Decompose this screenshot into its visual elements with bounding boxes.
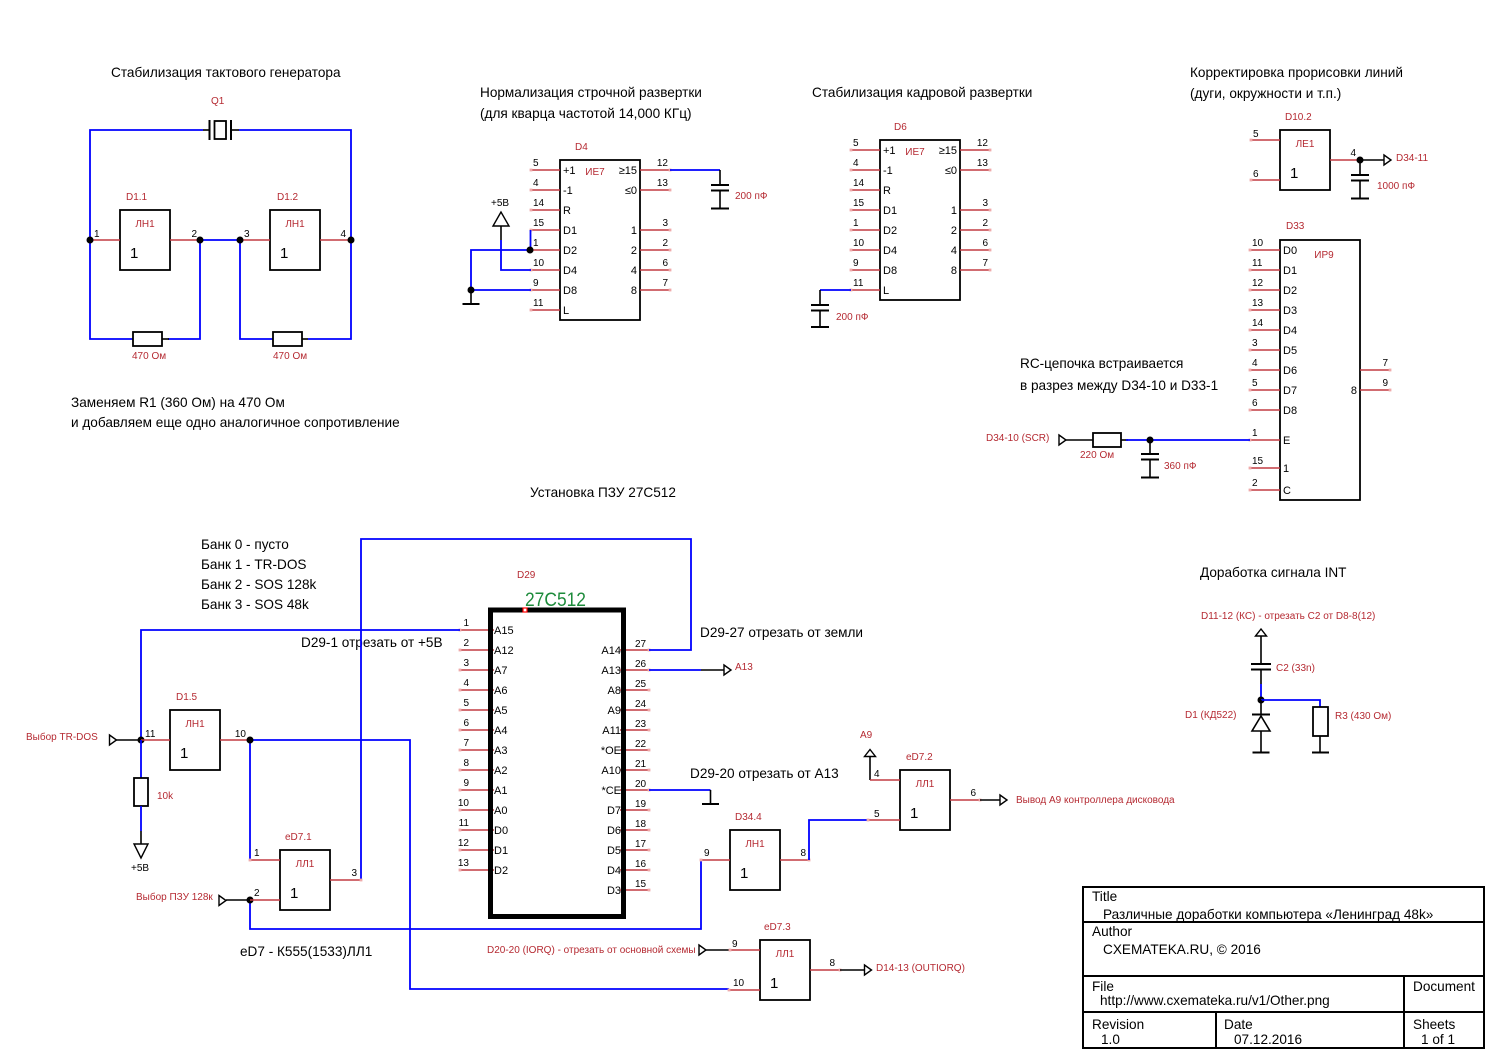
svg-text:25: 25 — [635, 679, 647, 690]
svg-text:Банк 3 - SOS 48k: Банк 3 - SOS 48k — [201, 597, 309, 612]
node 1 — [87, 237, 94, 244]
svg-text:A9: A9 — [608, 705, 621, 717]
svg-text:1.0: 1.0 — [1101, 1032, 1120, 1047]
svg-text:1: 1 — [94, 229, 100, 240]
arrow INT up — [1256, 629, 1267, 636]
svg-text:eD7.3: eD7.3 — [764, 922, 791, 933]
svg-text:16: 16 — [635, 859, 647, 870]
svg-text:Банк 0 - пусто: Банк 0 - пусто — [201, 537, 289, 552]
svg-text:3: 3 — [244, 229, 250, 240]
svg-text:1: 1 — [290, 885, 298, 902]
svg-text:2: 2 — [191, 229, 197, 240]
wire D1-D2 tie — [530, 230, 532, 250]
wire to D34-11 arrow — [1360, 159, 1384, 161]
wire node2-node3 — [200, 239, 240, 241]
svg-text:2: 2 — [662, 238, 668, 249]
svg-text:D2: D2 — [563, 245, 577, 257]
svg-text:Title: Title — [1092, 889, 1117, 904]
svg-text:CXEMATEKA.RU, © 2016: CXEMATEKA.RU, © 2016 — [1103, 942, 1261, 957]
svg-text:A4: A4 — [494, 725, 507, 737]
svg-text:8: 8 — [463, 758, 469, 769]
svg-text:A6: A6 — [494, 685, 507, 697]
IC D4 ИЕ7 counter — [530, 142, 672, 320]
svg-text:Нормализация строчной развертк: Нормализация строчной развертки — [480, 85, 702, 100]
svg-text:A9: A9 — [860, 730, 873, 741]
svg-text:RC-цепочка встраивается: RC-цепочка встраивается — [1020, 356, 1183, 371]
svg-text:D1: D1 — [1283, 265, 1297, 277]
svg-text:Установка ПЗУ 27С512: Установка ПЗУ 27С512 — [530, 485, 676, 500]
arrow A9 up — [865, 750, 876, 757]
svg-text:D1.5: D1.5 — [176, 692, 198, 703]
svg-text:15: 15 — [533, 218, 545, 229]
svg-text:4: 4 — [463, 678, 469, 689]
svg-text:1: 1 — [280, 245, 288, 262]
svg-text:14: 14 — [853, 178, 865, 189]
svg-text:eD7.2: eD7.2 — [906, 752, 933, 763]
svg-text:5: 5 — [1253, 129, 1259, 140]
inverter D34.4 ЛН1 — [700, 812, 811, 890]
svg-text:7: 7 — [662, 278, 668, 289]
wire feedback right bottom — [240, 240, 273, 339]
svg-text:D6: D6 — [1283, 365, 1297, 377]
IC D33 ИР9 register — [1249, 221, 1392, 500]
svg-text:D3: D3 — [1283, 305, 1297, 317]
svg-text:Document: Document — [1413, 979, 1475, 994]
svg-text:D4: D4 — [1283, 325, 1297, 337]
net label Вывод А9 контроллера дисковода — [1000, 795, 1007, 805]
capacitor 360 пФ — [1141, 440, 1197, 478]
svg-text:8: 8 — [829, 958, 835, 969]
svg-text:10: 10 — [853, 238, 865, 249]
svg-text:≤0: ≤0 — [945, 165, 957, 177]
capacitor 200 пФ (D4) — [711, 170, 768, 209]
svg-text:1: 1 — [180, 745, 188, 762]
svg-text:A1: A1 — [494, 785, 507, 797]
svg-text:9: 9 — [853, 258, 859, 269]
svg-text:200 пФ: 200 пФ — [836, 312, 869, 323]
svg-text:20: 20 — [635, 779, 647, 790]
wire D6 pin11 to capacitor — [820, 289, 851, 291]
svg-text:http://www.cxemateka.ru/v1/Oth: http://www.cxemateka.ru/v1/Other.png — [1100, 993, 1330, 1008]
node RC junction — [1147, 437, 1154, 444]
svg-text:18: 18 — [635, 819, 647, 830]
wire crystal left loop — [90, 130, 203, 240]
wire +5В to D4 pin 10 — [501, 240, 531, 270]
NOR gate D10.2 ЛЕ1 — [1250, 112, 1360, 190]
svg-text:3: 3 — [463, 658, 469, 669]
wire arrow to eD7.1 pin2 — [226, 899, 250, 901]
svg-text:D1: D1 — [563, 225, 577, 237]
svg-text:6: 6 — [1252, 398, 1258, 409]
svg-text:ИЕ7: ИЕ7 — [585, 167, 605, 178]
svg-text:D1 (КД522): D1 (КД522) — [1185, 710, 1237, 721]
svg-text:D1: D1 — [883, 205, 897, 217]
OR gate eD7.2 ЛЛ1 — [867, 752, 982, 830]
svg-text:ЛЕ1: ЛЕ1 — [1296, 139, 1315, 150]
svg-text:-1: -1 — [883, 165, 893, 177]
svg-text:D8: D8 — [1283, 405, 1297, 417]
svg-text:D6: D6 — [607, 825, 621, 837]
capacitor 1000 пФ — [1351, 160, 1415, 199]
svg-text:D0: D0 — [1283, 245, 1297, 257]
svg-text:24: 24 — [635, 699, 647, 710]
svg-text:5: 5 — [463, 698, 469, 709]
svg-text:11: 11 — [533, 298, 544, 309]
wire arrow to node 11 — [117, 739, 142, 741]
inverter D1.5 — [141, 692, 250, 770]
svg-text:8: 8 — [1351, 385, 1357, 397]
svg-text:4: 4 — [1350, 148, 1356, 159]
svg-text:Стабилизация тактового генерат: Стабилизация тактового генератора — [111, 65, 341, 80]
svg-text:10: 10 — [733, 978, 745, 989]
svg-text:D14-13 (OUTIORQ): D14-13 (OUTIORQ) — [876, 963, 965, 974]
svg-text:5: 5 — [533, 158, 539, 169]
svg-text:Sheets: Sheets — [1413, 1017, 1456, 1032]
svg-text:1: 1 — [631, 225, 637, 237]
svg-text:R: R — [563, 205, 571, 217]
svg-text:+5В: +5В — [131, 863, 149, 874]
resistor 470 Ом (right) — [273, 332, 307, 362]
svg-text:A13: A13 — [735, 662, 753, 673]
svg-text:8: 8 — [951, 265, 957, 277]
svg-text:D33: D33 — [1286, 221, 1305, 232]
node eD7.1 pin2 — [247, 897, 254, 904]
svg-text:6: 6 — [662, 258, 668, 269]
wire eD7.3 out to arrow — [840, 969, 865, 971]
svg-text:470 Ом: 470 Ом — [132, 351, 166, 362]
svg-text:1: 1 — [130, 245, 138, 262]
svg-text:A3: A3 — [494, 745, 507, 757]
svg-text:1: 1 — [1252, 428, 1258, 439]
svg-text:11: 11 — [145, 729, 156, 740]
svg-text:Выбор ПЗУ 128к: Выбор ПЗУ 128к — [136, 891, 213, 903]
svg-text:≤0: ≤0 — [625, 185, 637, 197]
svg-text:A12: A12 — [494, 645, 514, 657]
svg-text:1: 1 — [1283, 463, 1289, 475]
svg-text:≥15: ≥15 — [939, 145, 957, 157]
svg-text:2: 2 — [254, 888, 260, 899]
svg-text:(дуги, окружности и т.п.): (дуги, окружности и т.п.) — [1190, 86, 1341, 101]
svg-text:220 Ом: 220 Ом — [1080, 450, 1114, 461]
svg-text:+1: +1 — [563, 165, 576, 177]
svg-text:4: 4 — [874, 769, 880, 780]
svg-text:A10: A10 — [601, 765, 621, 777]
svg-text:360 пФ: 360 пФ — [1164, 461, 1197, 472]
ground symbol (*CE) — [710, 790, 712, 804]
svg-text:D3: D3 — [607, 885, 621, 897]
svg-text:11: 11 — [459, 818, 470, 829]
svg-text:6: 6 — [970, 788, 976, 799]
svg-text:3: 3 — [662, 218, 668, 229]
svg-text:D34-10 (SCR): D34-10 (SCR) — [986, 433, 1049, 444]
svg-text:1: 1 — [951, 205, 957, 217]
svg-text:A14: A14 — [601, 645, 621, 657]
svg-text:3: 3 — [351, 868, 357, 879]
svg-text:D5: D5 — [1283, 345, 1297, 357]
node 4 — [348, 237, 355, 244]
svg-text:L: L — [563, 305, 569, 317]
svg-text:9: 9 — [463, 778, 469, 789]
power +5В symbol (pull-up) — [131, 806, 149, 874]
svg-text:14: 14 — [1252, 318, 1264, 329]
crystal Q1 — [203, 96, 239, 140]
svg-text:23: 23 — [635, 719, 647, 730]
svg-text:5: 5 — [853, 138, 859, 149]
svg-text:Доработка сигнала INT: Доработка сигнала INT — [1200, 565, 1346, 580]
svg-text:D7: D7 — [607, 805, 621, 817]
svg-text:A2: A2 — [494, 765, 507, 777]
EPROM D29 27C512 — [458, 570, 651, 917]
svg-text:R: R — [883, 185, 891, 197]
svg-text:Различные доработки компьютера: Различные доработки компьютера «Ленингра… — [1103, 907, 1434, 922]
svg-text:14: 14 — [533, 198, 545, 209]
svg-text:07.12.2016: 07.12.2016 — [1234, 1032, 1302, 1047]
capacitor C2 (33n) — [1251, 663, 1315, 684]
node 2 — [197, 237, 204, 244]
svg-text:Date: Date — [1224, 1017, 1253, 1032]
node D4 ground junction — [468, 287, 475, 294]
svg-text:A5: A5 — [494, 705, 507, 717]
svg-text:4: 4 — [533, 178, 539, 189]
svg-text:7: 7 — [982, 258, 988, 269]
svg-text:Вывод А9 контроллера дисковода: Вывод А9 контроллера дисковода — [1016, 795, 1175, 806]
svg-text:Author: Author — [1092, 924, 1133, 939]
svg-text:3: 3 — [1252, 338, 1258, 349]
diode D1 (КД522) — [1185, 700, 1270, 753]
OR gate eD7.1 ЛЛ1 — [249, 832, 363, 910]
svg-text:*CE: *CE — [601, 785, 621, 797]
svg-text:ИР9: ИР9 — [1314, 250, 1334, 261]
svg-text:9: 9 — [732, 939, 738, 950]
wire A13 output — [649, 669, 701, 671]
svg-text:12: 12 — [1252, 278, 1264, 289]
svg-text:Стабилизация кадровой развертк: Стабилизация кадровой развертки — [812, 85, 1032, 100]
svg-text:1: 1 — [533, 238, 539, 249]
wire arrow to eD7.3 pin9 — [706, 949, 730, 951]
svg-text:D4: D4 — [607, 865, 621, 877]
ground symbol (D4) — [470, 290, 472, 304]
svg-text:C: C — [1283, 485, 1291, 497]
svg-text:D29: D29 — [517, 570, 536, 581]
svg-text:10: 10 — [235, 729, 247, 740]
svg-text:D34.4: D34.4 — [735, 812, 762, 823]
svg-text:26: 26 — [635, 659, 647, 670]
svg-text:470 Ом: 470 Ом — [273, 351, 307, 362]
svg-text:eD7.1: eD7.1 — [285, 832, 312, 843]
title block frame — [1083, 887, 1484, 1048]
node D4 D2 — [527, 247, 534, 254]
svg-text:17: 17 — [635, 839, 647, 850]
svg-text:D34-11: D34-11 — [1396, 153, 1428, 164]
svg-text:200 пФ: 200 пФ — [735, 191, 768, 202]
svg-text:D1.1: D1.1 — [126, 192, 148, 203]
node 3 — [237, 237, 244, 244]
net label D14-13 (OUTIORQ) — [865, 965, 872, 975]
svg-text:9: 9 — [1382, 378, 1388, 389]
svg-text:5: 5 — [874, 809, 880, 820]
svg-text:6: 6 — [982, 238, 988, 249]
svg-text:1: 1 — [254, 848, 260, 859]
svg-text:+1: +1 — [883, 145, 896, 157]
svg-text:D2: D2 — [494, 865, 508, 877]
svg-text:1: 1 — [910, 805, 918, 822]
svg-text:D5: D5 — [607, 845, 621, 857]
svg-text:15: 15 — [853, 198, 865, 209]
svg-text:1: 1 — [770, 975, 778, 992]
svg-text:8: 8 — [800, 848, 806, 859]
resistor 220 Ом — [1080, 433, 1128, 461]
svg-text:12: 12 — [977, 138, 989, 149]
svg-text:10: 10 — [458, 798, 470, 809]
svg-text:L: L — [883, 285, 889, 297]
svg-text:E: E — [1283, 435, 1290, 447]
resistor R3 (430 Ом) — [1312, 707, 1391, 753]
svg-text:9: 9 — [533, 278, 539, 289]
wire eD7.2 out to arrow — [980, 799, 1000, 801]
svg-text:D11-12 (КС) - отрезать С2 от D: D11-12 (КС) - отрезать С2 от D8-8(12) — [1201, 611, 1375, 622]
svg-text:1: 1 — [463, 618, 469, 629]
svg-text:A0: A0 — [494, 805, 507, 817]
svg-text:2: 2 — [1252, 478, 1258, 489]
svg-text:2: 2 — [951, 225, 957, 237]
wire *CE to ground — [649, 789, 711, 791]
svg-text:D8: D8 — [563, 285, 577, 297]
wire eD7.1 out to A14 — [361, 539, 691, 880]
wire D1.5 out net — [250, 740, 729, 989]
wire crystal right loop — [239, 130, 351, 240]
svg-text:D1: D1 — [494, 845, 508, 857]
resistor 470 Ом (left) — [132, 332, 166, 362]
wire feedback left bottom — [90, 240, 133, 339]
svg-text:6: 6 — [1253, 169, 1259, 180]
svg-text:21: 21 — [635, 759, 647, 770]
svg-text:и добавляем еще одно аналогичн: и добавляем еще одно аналогичное сопроти… — [71, 415, 400, 430]
net label A13 — [724, 665, 731, 675]
net label D34-11 — [1384, 155, 1391, 165]
svg-text:ИЕ7: ИЕ7 — [905, 147, 925, 158]
wire D34.4 out to eD7.2 pin5 — [809, 820, 868, 860]
svg-text:22: 22 — [635, 739, 647, 750]
svg-text:ЛЛ1: ЛЛ1 — [916, 779, 935, 790]
svg-text:12: 12 — [657, 158, 669, 169]
svg-text:5: 5 — [1252, 378, 1258, 389]
svg-text:Выбор TR-DOS: Выбор TR-DOS — [26, 731, 98, 743]
svg-text:ЛЛ1: ЛЛ1 — [296, 859, 315, 870]
node INT junction — [1258, 697, 1265, 704]
svg-text:12: 12 — [458, 838, 470, 849]
svg-text:10: 10 — [533, 258, 545, 269]
svg-text:File: File — [1092, 979, 1114, 994]
svg-text:1: 1 — [740, 865, 748, 882]
svg-text:Q1: Q1 — [211, 96, 225, 107]
svg-text:8: 8 — [631, 285, 637, 297]
OR gate eD7.3 ЛЛ1 — [728, 922, 842, 1000]
svg-text:ЛН1: ЛН1 — [285, 219, 305, 230]
svg-text:C2 (33n): C2 (33n) — [1276, 663, 1315, 674]
svg-text:Банк 2 - SOS 128k: Банк 2 - SOS 128k — [201, 577, 317, 592]
svg-text:11: 11 — [1252, 258, 1263, 269]
svg-text:R3 (430 Ом): R3 (430 Ом) — [1335, 711, 1391, 722]
svg-text:4: 4 — [1252, 358, 1258, 369]
svg-text:13: 13 — [977, 158, 989, 169]
svg-text:D4: D4 — [883, 245, 897, 257]
svg-text:Банк 1 - TR-DOS: Банк 1 - TR-DOS — [201, 557, 306, 572]
svg-text:D0: D0 — [494, 825, 508, 837]
svg-text:A11: A11 — [602, 725, 621, 737]
svg-text:10k: 10k — [157, 791, 174, 802]
svg-text:10: 10 — [1252, 238, 1264, 249]
svg-text:D4: D4 — [575, 142, 588, 153]
inverter D1.1 — [90, 192, 200, 270]
node D1.5 pin10 — [247, 737, 254, 744]
node D1.5 pin11 — [138, 737, 145, 744]
svg-text:A8: A8 — [608, 685, 621, 697]
svg-text:9: 9 — [704, 848, 710, 859]
svg-text:13: 13 — [458, 858, 470, 869]
svg-text:A15: A15 — [494, 625, 514, 637]
svg-text:D10.2: D10.2 — [1285, 112, 1312, 123]
svg-text:*OE: *OE — [601, 745, 621, 757]
IC D6 ИЕ7 counter — [850, 122, 992, 300]
svg-text:15: 15 — [635, 879, 647, 890]
svg-text:D6: D6 — [894, 122, 907, 133]
wire D2 to ground branch — [471, 250, 531, 290]
svg-text:D2: D2 — [1283, 285, 1297, 297]
svg-text:ЛН1: ЛН1 — [135, 219, 155, 230]
svg-text:eD7 - К555(1533)ЛЛ1: eD7 - К555(1533)ЛЛ1 — [240, 944, 372, 959]
svg-text:D29-27 отрезать от земли: D29-27 отрезать от земли — [700, 625, 863, 640]
svg-text:в разрез между D34-10 и D33-1: в разрез между D34-10 и D33-1 — [1020, 378, 1218, 393]
svg-text:27: 27 — [635, 639, 647, 650]
svg-text:Корректировка прорисовки линий: Корректировка прорисовки линий — [1190, 65, 1403, 80]
svg-text:D29-1 отрезать от +5В: D29-1 отрезать от +5В — [301, 635, 443, 650]
wire eD7.1 pin2 to D34.4 pin9 — [250, 860, 701, 929]
svg-text:4: 4 — [340, 229, 346, 240]
svg-text:(для кварца частотой 14,000 КГ: (для кварца частотой 14,000 КГц) — [480, 106, 692, 121]
svg-text:+5В: +5В — [491, 198, 509, 209]
svg-text:ЛН1: ЛН1 — [185, 719, 205, 730]
resistor 10k — [134, 740, 174, 806]
svg-text:7: 7 — [1382, 358, 1388, 369]
svg-text:ЛЛ1: ЛЛ1 — [776, 949, 795, 960]
svg-text:D29-20 отрезать от A13: D29-20 отрезать от A13 — [690, 766, 839, 781]
svg-text:6: 6 — [463, 718, 469, 729]
svg-text:1 of 1: 1 of 1 — [1421, 1032, 1455, 1047]
wire R220 to D33 pin E — [1126, 439, 1250, 441]
wire C2 to junction — [1260, 684, 1262, 700]
svg-text:D20-20 (IORQ) - отрезать от ос: D20-20 (IORQ) - отрезать от основной схе… — [487, 945, 696, 956]
svg-text:≥15: ≥15 — [619, 165, 637, 177]
svg-text:A13: A13 — [601, 665, 621, 677]
capacitor 200 пФ (D6) — [811, 290, 869, 327]
svg-text:-1: -1 — [563, 185, 573, 197]
node D10.2 output — [1357, 157, 1364, 164]
svg-text:4: 4 — [951, 245, 957, 257]
wire junction to R3 — [1261, 700, 1320, 707]
svg-text:2: 2 — [631, 245, 637, 257]
svg-text:2: 2 — [463, 638, 469, 649]
inverter D1.2 — [240, 192, 351, 270]
svg-text:ЛН1: ЛН1 — [745, 839, 765, 850]
svg-text:3: 3 — [982, 198, 988, 209]
svg-text:A7: A7 — [494, 665, 507, 677]
svg-text:1: 1 — [853, 218, 859, 229]
svg-text:13: 13 — [1252, 298, 1264, 309]
svg-text:D7: D7 — [1283, 385, 1297, 397]
svg-text:15: 15 — [1252, 456, 1264, 467]
svg-text:D4: D4 — [563, 265, 577, 277]
svg-text:Заменяем R1 (360 Ом) на 470 Ом: Заменяем R1 (360 Ом) на 470 Ом — [71, 395, 285, 410]
